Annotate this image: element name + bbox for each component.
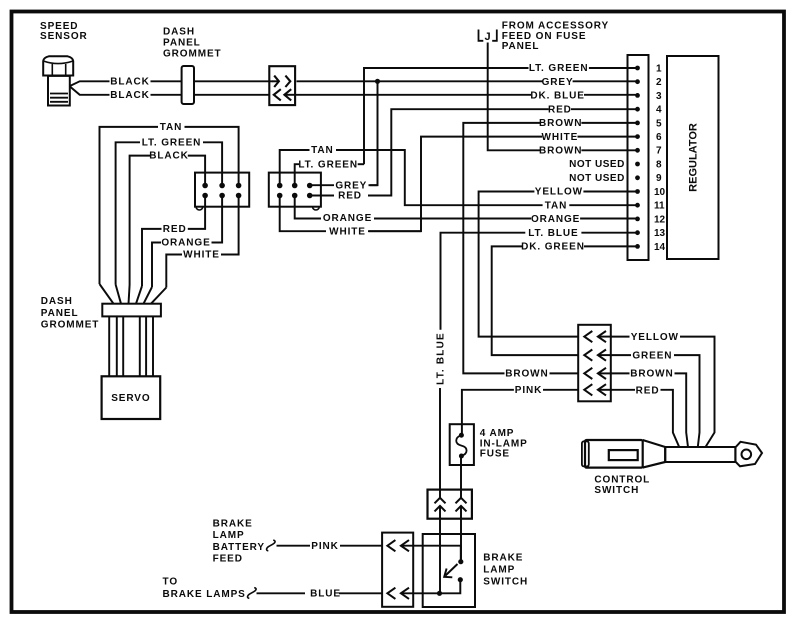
svg-text:TAN: TAN [160,122,183,133]
svg-text:FEED: FEED [213,554,243,565]
svg-text:CONTROL: CONTROL [594,474,650,485]
svg-text:4: 4 [656,105,662,116]
wire red control [611,390,679,447]
svg-text:BROWN: BROWN [505,369,548,380]
control connector C4 (4-pin) [578,325,612,402]
svg-text:PANEL: PANEL [41,308,79,319]
brake lamp battery feed label [213,519,265,565]
svg-text:YELLOW: YELLOW [631,332,679,343]
svg-text:LT. BLUE: LT. BLUE [436,332,447,385]
svg-text:NOT USED: NOT USED [569,173,625,184]
svg-text:BRAKE: BRAKE [213,519,253,530]
svg-text:LT. GREEN: LT. GREEN [529,63,589,74]
svg-text:RED: RED [636,385,660,396]
svg-text:PINK: PINK [515,385,543,396]
wire brown pin5 down to control connector [463,123,635,374]
wire brown control [611,373,688,447]
wire red left harness [142,196,205,287]
svg-text:SENSOR: SENSOR [40,31,88,42]
junction node on grey wire [375,79,380,84]
servo wires [109,316,153,376]
svg-text:DK. BLUE: DK. BLUE [530,91,584,102]
control switch right labels [630,332,679,397]
label brake lamp switch [483,553,528,588]
svg-text:DASH: DASH [41,296,73,307]
speed sensor [43,56,73,105]
dash panel grommet label (top) [163,27,222,60]
svg-text:ORANGE: ORANGE [161,238,210,249]
connector C2 (right 6-pin) [269,173,321,210]
wire white vertical pin6 to connector 2 [368,137,542,232]
wire black left harness [130,156,206,285]
wire blue to brake lamps [257,592,440,594]
svg-text:RED: RED [163,224,187,235]
svg-text:2: 2 [656,77,662,88]
svg-text:7: 7 [656,146,662,157]
switch arm arrow [444,564,457,577]
svg-text:8: 8 [656,159,662,170]
svg-text:9: 9 [656,173,662,184]
to brake lamps label [163,576,246,600]
regulator box U1 [667,56,719,259]
servo box [102,376,161,419]
svg-text:PINK: PINK [311,541,339,552]
svg-text:WHITE: WHITE [542,132,579,143]
svg-text:10: 10 [654,187,666,198]
inline connector near grommet [269,66,295,105]
svg-text:BLUE: BLUE [310,588,341,599]
svg-text:PANEL: PANEL [163,38,201,49]
wire bundle into grommet [100,284,167,304]
svg-text:13: 13 [654,228,666,239]
svg-text:NOT USED: NOT USED [569,159,625,170]
wire black top from sensor [70,81,636,86]
regulator pin strip [628,55,649,260]
svg-text:SWITCH: SWITCH [594,485,639,496]
svg-text:14: 14 [654,242,666,253]
svg-text:ORANGE: ORANGE [323,213,372,224]
wire white c2 right segment [369,230,421,232]
wire J to pin7 brown [488,43,540,151]
J symbol from accessory feed [479,30,497,44]
svg-text:BRAKE LAMPS: BRAKE LAMPS [163,589,246,600]
fuse F1 [450,424,474,465]
dash panel grommet (top) [182,66,194,104]
label control switch [594,474,650,496]
svg-text:BLACK: BLACK [110,76,150,87]
svg-text:SWITCH: SWITCH [483,577,528,588]
wire grey c2 right segment [369,184,378,186]
svg-text:TAN: TAN [311,145,334,156]
wire pink brake feed [277,546,461,562]
svg-text:12: 12 [654,214,666,225]
svg-text:5: 5 [656,118,662,129]
svg-text:GREEN: GREEN [632,350,672,361]
svg-text:BRAKE: BRAKE [483,553,523,564]
svg-text:TO: TO [163,576,179,587]
wire lt blue pin13 down to brake switch [440,233,636,594]
svg-text:DK. GREEN: DK. GREEN [521,242,585,253]
connector C6 (brake 2-pin) [382,533,413,607]
left harness labels [142,122,220,261]
svg-text:RED: RED [548,104,572,115]
wire dk green pin14 down to control connector [492,246,636,355]
wire white left harness [166,196,238,288]
svg-text:LAMP: LAMP [483,565,515,576]
wire orange c2 from pin [295,198,321,219]
svg-text:REGULATOR: REGULATOR [688,123,700,192]
svg-text:TAN: TAN [545,200,568,211]
svg-text:GROMMET: GROMMET [41,319,100,330]
svg-text:LT. BLUE: LT. BLUE [528,228,578,239]
svg-text:1: 1 [656,63,662,74]
svg-text:WHITE: WHITE [329,226,366,237]
wire red vertical pin4 to connector 2 [368,109,549,195]
node common [458,559,463,564]
svg-text:WHITE: WHITE [183,250,220,261]
svg-text:BROWN: BROWN [539,118,582,129]
svg-text:BATTERY: BATTERY [213,542,265,553]
wire lower contact to junction [440,580,461,594]
wire grey vertical to connector 2 [370,81,378,185]
continuation squiggle pink [267,540,276,551]
connector C5 (2-pin vertical) [428,490,472,519]
wire lt green c2 left [295,164,299,185]
regulator pin labels [521,63,625,252]
wire yellow pin10 down to control connector [479,192,636,337]
brake lamp switch SW2 [423,534,475,607]
wire black bottom from sensor [70,87,636,95]
node junction blue [437,591,442,596]
svg-text:RED: RED [338,191,362,202]
label from accessory feed on fuse panel [502,21,609,52]
svg-text:SERVO: SERVO [111,393,150,404]
node lower contact [458,577,463,582]
svg-text:FUSE: FUSE [480,449,510,460]
wire grey c2 from pin [310,184,334,186]
wire red c2 from pin [310,195,334,197]
connector C2 labels [298,145,372,237]
wire tan left harness [100,127,239,284]
svg-text:J: J [485,31,491,43]
svg-text:YELLOW: YELLOW [535,187,583,198]
svg-text:6: 6 [656,132,662,143]
connector C1 (left 6-pin) [195,173,249,210]
svg-text:GROMMET: GROMMET [163,49,222,60]
wire lt green vertical pin1 to connector 2 [364,68,529,164]
wire green control [611,355,700,447]
regulator pins [635,66,640,249]
wire orange connector2 to pin12 [374,218,531,220]
dash panel grommet (bottom) [102,304,161,317]
control switch SW1 [582,440,762,468]
wire pink to fuse [462,390,578,435]
svg-text:BLACK: BLACK [149,151,189,162]
wire white c2 from pin [280,198,326,231]
svg-text:BROWN: BROWN [630,369,673,380]
svg-text:LT. GREEN: LT. GREEN [298,159,358,170]
continuation squiggle blue [248,588,257,599]
label fuse [480,428,528,459]
speed sensor label [40,21,88,42]
svg-text:BROWN: BROWN [539,146,582,157]
wire yellow control [611,337,715,447]
wire lt green left harness [116,142,223,284]
svg-text:GREY: GREY [542,77,574,88]
svg-text:3: 3 [656,91,662,102]
svg-text:ORANGE: ORANGE [531,214,580,225]
wire fuse down to brake switch [460,456,462,498]
svg-text:LAMP: LAMP [213,530,245,541]
wire lt green c2 right hook [358,163,364,165]
wire orange left harness [152,196,222,288]
svg-text:PANEL: PANEL [502,41,540,52]
wire tan c2 left [280,150,310,186]
svg-text:DASH: DASH [163,27,195,38]
svg-text:11: 11 [654,201,665,212]
svg-text:BLACK: BLACK [110,90,150,101]
dash panel grommet label (bottom) [41,296,100,330]
wire tan connector2 to pin11 [336,150,543,205]
svg-text:LT. GREEN: LT. GREEN [142,137,202,148]
pin numbers [654,63,666,252]
